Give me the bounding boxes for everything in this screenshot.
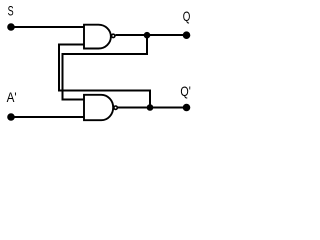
feedback wire: Q junction down, left, down to U2 upper input	[63, 35, 148, 99]
wire S to U1 upper input	[11, 26, 84, 28]
junction dot on Q net	[144, 32, 151, 39]
input terminal S	[7, 23, 15, 31]
feedback wire: Q' junction up, left, up to U1 lower input	[59, 44, 150, 107]
svg-text:A': A'	[7, 89, 17, 105]
U2 output bubble	[114, 106, 117, 109]
svg-text:Q: Q	[183, 8, 191, 24]
U1 output bubble	[112, 34, 115, 37]
NAND gate U2 (bottom)	[84, 95, 113, 120]
wire U1 output to node Q	[116, 34, 187, 36]
svg-text:S: S	[8, 3, 14, 19]
input terminal A'	[7, 113, 15, 121]
wire U2 output to node Q'	[118, 107, 187, 109]
wire A' to U2 lower input	[11, 116, 84, 118]
NAND gate U1 (top)	[84, 25, 111, 49]
junction dot on Q' net	[147, 104, 154, 111]
output terminal Q	[183, 31, 191, 39]
output terminal Q'	[183, 104, 191, 112]
svg-text:Q': Q'	[180, 83, 190, 99]
